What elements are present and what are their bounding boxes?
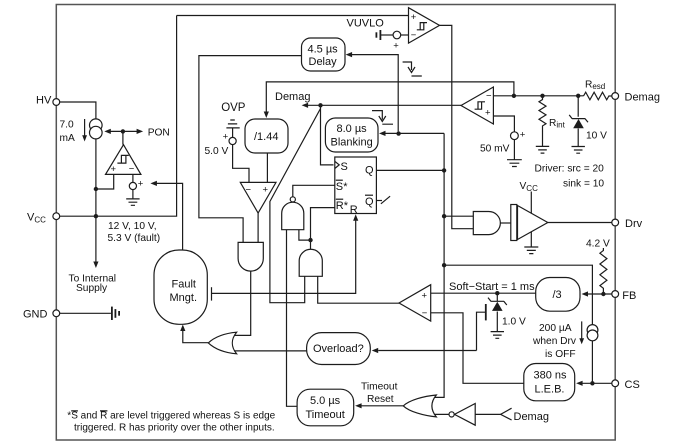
svg-text:4.2 V: 4.2 V — [586, 239, 610, 250]
wire Overload output to OR gate — [234, 350, 307, 352]
falling edge glyph near Delay — [403, 62, 422, 76]
wire zener 1.0V leads — [496, 293, 498, 331]
wire demag comparator output — [308, 104, 461, 106]
wire AND C output to logic node — [310, 240, 312, 249]
comparator Demag — [461, 87, 493, 124]
ground 50 mV — [507, 160, 522, 167]
wire OR gate to Fault Mngt — [183, 328, 209, 343]
arrowhead PON left — [104, 129, 111, 134]
wire latch Q output — [376, 169, 444, 171]
svg-text:sink = 10: sink = 10 — [563, 179, 604, 190]
node VCC junction — [94, 214, 98, 218]
arrowhead left into Delay box — [346, 52, 353, 57]
svg-text:+: + — [411, 12, 417, 23]
svg-text:/3: /3 — [553, 289, 562, 301]
svg-text:−: − — [486, 91, 492, 102]
latch SR — [335, 157, 377, 216]
svg-text:Drv: Drv — [625, 218, 643, 230]
svg-text:8.0 µs: 8.0 µs — [337, 123, 368, 135]
svg-text:S: S — [336, 181, 343, 193]
wire arrow into PON reference node — [157, 183, 183, 250]
box Fault Mngt — [154, 250, 207, 324]
svg-text:−: − — [246, 185, 252, 196]
label 12V 10V 5.3V fault — [108, 221, 161, 244]
svg-text:5.0 V: 5.0 V — [205, 146, 229, 157]
svg-text:Blanking: Blanking — [331, 137, 373, 149]
svg-text:380 ns: 380 ns — [534, 370, 568, 382]
svg-text:*: * — [343, 181, 348, 193]
node demag output branch — [318, 103, 322, 107]
wire Fault output to latch R input — [212, 221, 356, 294]
svg-text:−: − — [422, 308, 428, 319]
svg-text:+: + — [393, 41, 399, 52]
svg-text:−: − — [129, 164, 135, 175]
wire soft-start rail — [431, 292, 536, 294]
node demag rail zener junction — [576, 94, 580, 98]
wire Rint to ground — [542, 131, 544, 146]
svg-text:GND: GND — [23, 309, 48, 321]
svg-text:Rint: Rint — [549, 118, 566, 130]
svg-text:50 mV: 50 mV — [480, 144, 510, 155]
node Q net current source junction — [442, 263, 446, 267]
reference circle 50 mV — [511, 130, 526, 141]
svg-text:Soft−Start = 1 ms: Soft−Start = 1 ms — [449, 281, 535, 293]
arrow 7.0 mA direction — [82, 119, 87, 142]
svg-text:Overload?: Overload? — [313, 343, 364, 355]
svg-text:HV: HV — [36, 95, 52, 107]
box 8.0us Blanking — [325, 118, 378, 152]
reference circle PON — [129, 179, 143, 190]
wire NAND B left input — [287, 230, 298, 407]
node FB resistor junction — [601, 292, 605, 296]
wire Delay input from demag net — [348, 55, 398, 132]
label Timeout Reset — [361, 382, 398, 406]
arrow 200uA direction — [579, 321, 584, 344]
wire VUVLO battery to reference circle — [380, 34, 393, 36]
wire 5.0V reference to OVP - input — [233, 128, 249, 182]
pin CS — [612, 379, 640, 391]
wire VUVLO output down to driver AND input — [440, 25, 474, 228]
ground zener 1.0V — [491, 332, 504, 339]
wire clamp switch gate — [477, 312, 486, 350]
wire Delay output to AND A input — [199, 56, 302, 243]
wire top rail VCC to VUVLO + input — [177, 15, 409, 17]
box /1.44 — [245, 119, 288, 153]
zener 1.0V — [488, 298, 507, 311]
zener 10V — [569, 115, 588, 128]
wire FB pin to /3 arrow — [588, 293, 612, 295]
svg-text:R: R — [350, 204, 358, 216]
footnote — [67, 411, 275, 434]
wire blanking input from Q net — [381, 132, 444, 134]
svg-text:200 µA: 200 µA — [539, 323, 572, 334]
wire driver output to Drv pin — [548, 222, 612, 224]
svg-text:Driver: src = 20: Driver: src = 20 — [535, 164, 605, 175]
svg-text:+: + — [422, 291, 428, 302]
pin Drv — [612, 218, 643, 230]
svg-text:5.0 µs: 5.0 µs — [310, 395, 341, 407]
comparator PWM — [399, 285, 431, 321]
node CS current source junction — [590, 381, 594, 385]
reference circle 5.0V — [223, 132, 237, 145]
svg-text:+: + — [111, 164, 117, 175]
label Driver src sink — [535, 164, 605, 190]
wire OR3 output to Timeout box — [362, 405, 404, 407]
wire current source to VCC node — [95, 139, 97, 216]
pin HV — [36, 95, 60, 107]
wire Q net vertical — [432, 133, 444, 397]
svg-text:Reset: Reset — [367, 394, 394, 405]
svg-text:Timeout: Timeout — [306, 409, 345, 421]
svg-text:Fault: Fault — [172, 279, 196, 291]
arrowhead left into PON reference — [150, 181, 157, 186]
wire demag branch down to latch S input — [321, 105, 334, 165]
svg-text:10 V: 10 V — [586, 131, 607, 142]
wire AND A output to OR gate — [234, 271, 251, 335]
ground PON reference — [126, 199, 139, 205]
wire demag comp + input to 50mV — [493, 116, 514, 132]
ground driver — [524, 247, 538, 254]
svg-text:*: * — [344, 200, 349, 212]
node PON junction — [121, 129, 125, 133]
svg-text:L.E.B.: L.E.B. — [535, 384, 565, 396]
node demag rail Rint junction — [540, 94, 544, 98]
arrowhead left Demag signal out — [302, 103, 309, 108]
wire latch Qbar stub — [376, 200, 382, 202]
svg-text:+: + — [485, 108, 491, 119]
svg-text:Demag: Demag — [514, 411, 549, 423]
arrowhead left into Blanking box — [379, 131, 386, 136]
wire To Internal Supply drop — [95, 216, 97, 261]
wire zener 10V leads — [577, 96, 579, 147]
battery symbol at GND — [112, 307, 119, 320]
wire NAND B output to latch Sbar input — [293, 185, 335, 197]
resistor 4.2V to FB — [600, 248, 607, 294]
svg-text:Demag: Demag — [625, 92, 660, 104]
pin GND — [23, 309, 60, 321]
svg-text:mA: mA — [60, 133, 75, 144]
arrowhead up into Fault Mngt — [180, 325, 185, 332]
label To Internal Supply — [69, 274, 117, 295]
pin FB — [612, 290, 637, 302]
svg-text:−: − — [411, 30, 417, 41]
node soft-start zener junction — [495, 291, 499, 295]
wire overload sense into Overload box — [378, 350, 476, 352]
svg-text:Timeout: Timeout — [361, 382, 398, 393]
arrowhead left into Overload box — [372, 348, 379, 353]
svg-text:Q: Q — [365, 165, 374, 177]
arrowhead down into /1.44 box — [264, 112, 269, 119]
svg-text:+: + — [520, 130, 526, 141]
svg-text:PON: PON — [148, 128, 170, 139]
falling edge glyph near Blanking — [372, 111, 393, 125]
fault output tick bar — [211, 287, 213, 300]
comparator PON — [106, 145, 141, 175]
svg-text:Delay: Delay — [309, 56, 338, 68]
wire VCC pin to riser — [60, 16, 177, 217]
wire diagonal demag to OVP logic — [270, 109, 321, 303]
arrowhead down To Internal Supply — [93, 262, 98, 269]
gate AND driver — [473, 212, 500, 235]
current source 200uA — [587, 325, 598, 341]
svg-text:*S and R are level triggered w: *S and R are level triggered whereas S i… — [67, 411, 275, 422]
box 380ns LEB — [524, 364, 575, 401]
pin Demag — [612, 92, 660, 104]
svg-text:12 V, 10 V,: 12 V, 10 V, — [108, 221, 157, 232]
gate AND A — [238, 242, 263, 271]
arrowhead left into /3 box — [582, 291, 589, 296]
svg-text:when Drv: when Drv — [532, 336, 577, 347]
wire demag rail comparator to pin — [493, 95, 583, 97]
wire /1.44 output to OVP + input — [266, 153, 268, 182]
wire HV pin to current source — [60, 102, 96, 119]
svg-text:FB: FB — [622, 290, 636, 302]
svg-text:CS: CS — [625, 379, 640, 391]
arrowhead PON right — [137, 129, 144, 134]
wire PON reference to ground — [132, 190, 134, 199]
wire VCC to driver — [530, 192, 532, 214]
gate OR feeding Fault — [208, 332, 236, 354]
wire LEB to CS pin — [582, 382, 611, 384]
gate OR timeout — [403, 395, 436, 417]
svg-text:VUVLO: VUVLO — [347, 18, 385, 30]
chevron Demag source — [501, 408, 512, 420]
resistor Rint — [539, 97, 546, 131]
reference circle VUVLO — [393, 31, 401, 51]
label 7.0 mA — [60, 120, 75, 145]
box 4.5us Delay — [302, 38, 346, 71]
svg-text:is OFF: is OFF — [545, 349, 576, 360]
node Q net AND junction — [442, 214, 446, 218]
wire OVP comp output to AND A — [257, 213, 259, 242]
arrowhead up into latch R input — [353, 214, 358, 221]
wire Q net to 200uA source — [444, 265, 592, 325]
box /3 — [536, 278, 580, 312]
wire driver to ground — [530, 232, 532, 247]
wire GND pin to battery symbol — [60, 312, 111, 314]
node blanking delay junction — [396, 131, 400, 135]
wire PON comp + input to HV rail — [96, 174, 114, 189]
gate AND C — [299, 249, 322, 276]
comparator VUVLO — [409, 8, 440, 43]
pin VCC — [27, 212, 60, 225]
svg-text:R: R — [336, 200, 344, 212]
node Q output junction — [442, 168, 446, 172]
svg-text:Resd: Resd — [585, 80, 605, 92]
Qbar edge slash — [381, 196, 390, 204]
comparator OVP — [240, 182, 276, 213]
wire PWM comp output to AND C — [318, 276, 399, 303]
svg-text:5.3 V (fault): 5.3 V (fault) — [108, 233, 161, 244]
wire Q net to driver AND top input — [444, 215, 473, 217]
label 200uA when Drv is OFF — [532, 323, 577, 360]
resistor Resd — [584, 92, 612, 100]
gate NAND B — [282, 197, 304, 230]
box Overload — [307, 333, 371, 365]
svg-text:Supply: Supply — [76, 283, 108, 294]
wire PON comp - input to reference — [132, 174, 134, 182]
wire PON double arrow — [110, 130, 138, 132]
label OVP ground — [226, 120, 239, 128]
driver buffer — [511, 205, 548, 241]
wire inverter output to OR3 — [432, 413, 449, 415]
wire AND driver output — [500, 222, 510, 224]
svg-text:+: + — [223, 132, 229, 143]
wire PON node to comparator apex — [122, 131, 124, 144]
svg-text:/1.44: /1.44 — [254, 131, 278, 143]
wire PWM comp - input to LEB — [431, 313, 524, 384]
wire demag rail to /1.44 feed — [266, 82, 514, 112]
wire 200uA source to CS rail — [591, 341, 593, 384]
svg-text:4.5 µs: 4.5 µs — [308, 44, 339, 56]
ground zener 10V — [572, 147, 585, 154]
wire 50mV source to ground — [513, 140, 515, 160]
arrowhead left into Timeout box — [355, 403, 362, 408]
svg-text:OVP: OVP — [221, 102, 246, 114]
svg-text:7.0: 7.0 — [60, 120, 74, 131]
current source 7.0 mA — [90, 119, 103, 139]
svg-text:+: + — [263, 185, 269, 196]
svg-text:triggered. R has priority over: triggered. R has priority over the other… — [74, 423, 275, 434]
clamp switch bar — [485, 304, 487, 320]
svg-text:Q: Q — [365, 196, 374, 208]
svg-text:+: + — [138, 179, 144, 190]
box 5.0us Timeout — [297, 389, 354, 426]
wire VUVLO reference to - input — [401, 34, 409, 36]
VUVLO battery bars — [376, 30, 380, 40]
wire logic node to NAND B right input — [299, 230, 311, 240]
wire inverter input from Demag — [475, 413, 500, 415]
svg-text:Demag: Demag — [275, 91, 310, 103]
svg-text:1.0 V: 1.0 V — [502, 317, 526, 328]
svg-text:S: S — [341, 161, 348, 173]
wire logic node to latch Rbar input — [311, 208, 335, 241]
node HV rail at PON + input — [94, 187, 98, 191]
node AND C output junction — [308, 238, 312, 242]
ground Rint — [536, 146, 549, 153]
inverter Demag — [449, 404, 475, 426]
node demag rail riser junction — [512, 94, 516, 98]
arrowhead left into LEB box — [576, 381, 583, 386]
svg-text:Mngt.: Mngt. — [170, 292, 198, 304]
